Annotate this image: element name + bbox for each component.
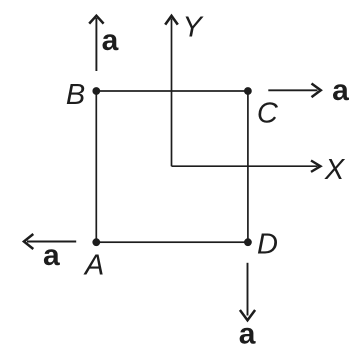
- svg-text:a: a: [102, 24, 119, 57]
- svg-text:a: a: [332, 74, 349, 107]
- vertex dot B: [92, 87, 100, 95]
- svg-text:Y: Y: [183, 11, 205, 43]
- svg-text:D: D: [257, 228, 278, 260]
- vertex dot C: [244, 87, 252, 95]
- square ABCD: [96, 91, 248, 242]
- svg-text:B: B: [66, 79, 85, 111]
- svg-text:X: X: [324, 154, 346, 186]
- vector a down at D: [240, 263, 255, 321]
- vertex dot A: [92, 238, 100, 246]
- X axis: [172, 161, 321, 172]
- vector a up at B: [89, 16, 103, 71]
- svg-text:C: C: [257, 98, 279, 130]
- svg-text:a: a: [43, 239, 60, 272]
- Y axis: [165, 16, 178, 166]
- vector a left at A: [24, 234, 76, 249]
- svg-text:a: a: [239, 317, 256, 350]
- svg-text:A: A: [83, 249, 104, 281]
- vertex dot D: [244, 238, 252, 246]
- vector a right at C: [268, 84, 321, 98]
